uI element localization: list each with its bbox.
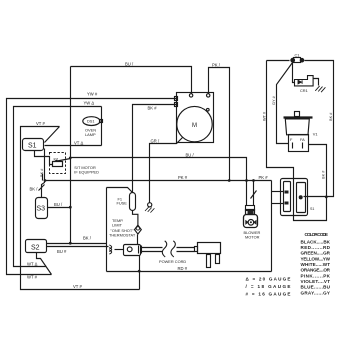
wire VT 16ga third loop: funnel to S1, left bus v3, bottom run to thermostat drop <box>21 127 140 290</box>
svg-text:WT #: WT # <box>261 111 266 121</box>
plug neck <box>195 247 198 252</box>
svg-text:BK #: BK # <box>148 106 158 111</box>
HV box left edge and magnetron link down to interlock <box>267 61 327 221</box>
magnetron V1 hat <box>295 112 300 117</box>
blower motor terminal block <box>248 211 254 215</box>
ground terminal circle <box>148 203 152 207</box>
blower motor body <box>244 215 258 228</box>
diode CR1 body <box>295 76 314 86</box>
blower motor neck <box>246 206 255 211</box>
capacitor C1 body <box>294 58 301 63</box>
one-shot diamond <box>135 225 142 234</box>
svg-text:PK #: PK # <box>259 175 269 180</box>
wire K2 box second drop <box>42 174 44 181</box>
interlock inner switch left <box>284 182 291 212</box>
svg-text:YW #: YW # <box>87 92 98 97</box>
wire branch to interlock pin 1 <box>272 191 284 193</box>
magnetron filament box <box>289 135 309 152</box>
junction dots <box>69 157 72 160</box>
interlock pin 1 <box>285 191 289 194</box>
svg-text:BU /: BU / <box>186 153 195 158</box>
svg-text:PK #: PK # <box>178 175 188 180</box>
power cord double lines <box>142 247 163 249</box>
svg-text:YELLOW....YW: YELLOW....YW <box>301 256 331 261</box>
svg-text:S3: S3 <box>37 206 46 213</box>
svg-text:POWER CORD: POWER CORD <box>159 259 186 264</box>
wire BU main vertical bus x=70 <box>70 67 72 244</box>
svg-text:FA: FA <box>300 137 305 142</box>
wire BK # from motor down to fuse <box>133 105 177 193</box>
wire PK # long run <box>45 180 272 182</box>
wire FA to interlock junction <box>309 145 327 197</box>
capacitor C1 left dot <box>290 58 295 63</box>
thermostat disc <box>127 247 132 252</box>
interlock pin 2 <box>285 202 289 205</box>
motor terminal left <box>189 94 192 97</box>
motor body circle <box>177 106 212 141</box>
wire S2 lower contact BU 16ga to thermostat <box>47 246 109 248</box>
svg-text:VT Δ: VT Δ <box>74 141 83 146</box>
motor left pin 2 <box>175 103 178 107</box>
wire squiggle to thermostat <box>115 249 124 251</box>
svg-text:GRAY......GY: GRAY......GY <box>301 290 331 295</box>
wire junction to S3 with jog <box>42 181 45 198</box>
magnetron top bar <box>284 116 313 118</box>
svg-text:S2: S2 <box>31 244 40 251</box>
motor terminal right <box>207 94 210 97</box>
svg-text:WHITE.....WT: WHITE.....WT <box>301 262 331 267</box>
svg-text:RD #: RD # <box>178 266 188 271</box>
svg-text:BU /: BU / <box>125 61 134 66</box>
svg-text:GY #: GY # <box>271 95 276 105</box>
color code table <box>301 232 331 295</box>
svg-text:IF EQUIPPED: IF EQUIPPED <box>74 169 99 174</box>
wire branch to interlock pin 2 <box>272 203 284 205</box>
wire S3 to BU bus <box>48 207 71 209</box>
svg-text:/ = 18 GAUGE: / = 18 GAUGE <box>246 284 291 289</box>
plug prong 2 <box>216 255 220 264</box>
svg-text:BK #: BK # <box>321 170 326 179</box>
interlock connector outer box <box>281 179 308 216</box>
svg-text:BK /: BK / <box>30 186 39 191</box>
magnetron body <box>285 119 309 135</box>
motor small terminal <box>207 108 210 111</box>
svg-text:BU /: BU / <box>54 202 63 207</box>
wire PK from motor right terminal up and down right side <box>209 68 230 181</box>
lamp terminal nub <box>100 120 103 123</box>
wire fuse top L link <box>107 188 133 193</box>
wire S1 bottom to relay coil <box>35 151 53 165</box>
wire YW 16ga outer loop: top run, left bus v1, bottom WT run <box>7 99 177 275</box>
HV box top edge right segment and right edge <box>305 61 334 197</box>
interlock right pin <box>299 195 303 199</box>
switch S2 <box>26 240 47 253</box>
svg-text:CR1: CR1 <box>300 88 308 93</box>
thermostat plates <box>138 246 140 254</box>
oven lamp DS1 oval <box>83 117 100 126</box>
one-shot dot <box>136 227 139 230</box>
CR1 ground hatches <box>315 86 325 92</box>
svg-text:VT #: VT # <box>73 284 82 289</box>
switch S1 <box>23 139 44 151</box>
svg-text:V1: V1 <box>313 131 318 136</box>
fuse F1 <box>130 193 136 211</box>
wire blower second feed <box>253 181 255 206</box>
svg-text:MOTOR: MOTOR <box>245 235 260 240</box>
svg-text:GR /: GR / <box>151 139 160 144</box>
svg-text:LAMP: LAMP <box>85 132 96 137</box>
wire S1 actuator diagonal <box>45 127 60 143</box>
HV box top edge left segment <box>267 60 290 62</box>
capacitor C1 right dot <box>300 58 305 63</box>
svg-text:PK /: PK / <box>212 62 221 67</box>
gauge tick on blower feed <box>251 191 257 199</box>
wire relay to S3 feed BK <box>44 149 46 181</box>
svg-text:VIOLET....VT: VIOLET....VT <box>301 279 331 284</box>
cord break arcs <box>162 241 166 257</box>
blower motor circle <box>248 220 254 226</box>
wire RD vertical right with interlock pin branches <box>271 181 273 272</box>
gauge legend <box>246 276 291 296</box>
interlock inner switch right <box>297 183 306 213</box>
wire BU top run from left bus to motor terminal <box>71 67 192 94</box>
wire YW 20ga second loop: oven lamp box top+right, left bus v2, WT triangle run <box>14 107 102 267</box>
diode CR1 ground wire <box>314 79 319 86</box>
svg-text:PINK......PK: PINK......PK <box>301 273 331 278</box>
thermostat body <box>124 245 141 256</box>
wire VT 20ga from S1 to lamp box corner <box>45 145 102 147</box>
svg-text:S1: S1 <box>310 207 314 211</box>
svg-text:COLOR CODE: COLOR CODE <box>305 232 329 237</box>
svg-text:BU #: BU # <box>57 249 67 254</box>
gauge tick on S3 feed <box>39 185 45 191</box>
motor M box <box>177 93 214 143</box>
blower motor wedge right <box>253 220 256 225</box>
svg-text:BLACK.....BK: BLACK.....BK <box>301 239 331 244</box>
wire S2 bottom actuator <box>37 253 52 275</box>
diode CR1 symbol <box>298 80 302 84</box>
svg-text:BLUE......BU: BLUE......BU <box>301 285 331 290</box>
blower motor dot <box>250 221 252 223</box>
svg-text:BK #: BK # <box>328 112 333 121</box>
svg-text:BK #: BK # <box>39 168 44 177</box>
blower motor wedge left <box>245 220 248 225</box>
svg-text:LIMIT: LIMIT <box>112 223 123 228</box>
svg-text:ORANGE....OR: ORANGE....OR <box>301 268 331 273</box>
svg-text:WT Δ: WT Δ <box>27 262 38 267</box>
magnetron pin F <box>292 143 294 149</box>
relay K2 dashed box <box>50 153 66 174</box>
relay lever arrowhead <box>54 159 58 162</box>
svg-text:Δ = 20 GAUGE: Δ = 20 GAUGE <box>246 276 291 281</box>
svg-text:C1: C1 <box>295 53 300 58</box>
svg-text:WT #: WT # <box>27 275 38 280</box>
svg-text:VT #: VT # <box>36 121 45 126</box>
wire GY # from C1 to magnetron filament <box>277 63 293 144</box>
diode CR1 feed wire <box>293 63 295 83</box>
motor left pin 1 <box>175 97 178 101</box>
wire fuse bottom to one-shot <box>133 211 138 225</box>
plug prong 1 <box>207 255 211 268</box>
svg-text:FUSE: FUSE <box>117 201 128 206</box>
svg-text:GREEN.....GR: GREEN.....GR <box>301 251 331 256</box>
wire thermostat bottom drop to VT/RD node <box>139 256 141 290</box>
relay coil <box>53 162 63 167</box>
squiggle flex lead <box>109 245 111 254</box>
wire RD # bottom run <box>107 271 272 273</box>
wire right pin to junction <box>304 196 327 198</box>
wire left vertical from fuse L down to RD run <box>106 188 108 272</box>
svg-text:BK /: BK / <box>83 236 92 241</box>
wire BU 18ga mid run to blower feed <box>71 158 247 206</box>
svg-text:DS1: DS1 <box>87 119 95 124</box>
wire S2 upper contact BK 18ga <box>47 243 107 245</box>
relay lever <box>55 159 71 162</box>
ground hatches <box>145 207 154 213</box>
svg-text:# = 16 GAUGE: # = 16 GAUGE <box>246 292 291 297</box>
svg-text:YW Δ: YW Δ <box>84 101 95 106</box>
wire diamond to thermostat <box>137 235 139 245</box>
wire GR 18ga from motor to chassis ground <box>150 138 183 203</box>
magnetron pin FA <box>302 143 304 149</box>
switch S3 <box>36 198 48 219</box>
svg-text:S1: S1 <box>28 143 37 150</box>
plug body <box>198 243 221 254</box>
wire oven lamp box right edge <box>101 107 103 146</box>
svg-text:THERMOSTAT: THERMOSTAT <box>109 233 136 238</box>
svg-text:M: M <box>192 123 197 129</box>
svg-text:RED.......RD: RED.......RD <box>301 245 331 250</box>
